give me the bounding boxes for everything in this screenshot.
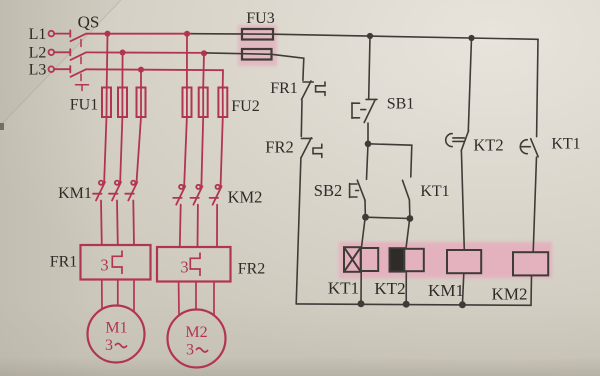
KM1 pole 2: [109, 181, 121, 245]
wire L2 into FU3: [207, 53, 272, 54]
svg-text:KT2: KT2: [473, 136, 503, 155]
junction dot bottom rail 2: [403, 301, 410, 308]
KM2 pole 2: [190, 185, 202, 247]
svg-text:QS: QS: [78, 13, 100, 32]
tilde M1: [115, 344, 127, 348]
fuse FU3 top: [242, 29, 273, 40]
wire FU2 col1 drop: [186, 34, 188, 88]
wire FU1 to KM1 col2: [120, 117, 122, 181]
wire L1 into FU3: [192, 33, 273, 36]
junction dot L2-FU2: [201, 50, 207, 56]
fuse FU2 a: [183, 88, 192, 118]
svg-text:KT1: KT1: [420, 183, 449, 200]
QS linkage dashed: [76, 40, 89, 91]
svg-text:M1: M1: [105, 320, 127, 337]
wire L2 run: [86, 51, 207, 54]
wire FU1 col2 drop: [121, 53, 123, 88]
fuse FU1 c: [137, 88, 146, 118]
junction dot top rail D: [468, 35, 474, 41]
fuse FU1 a: [102, 88, 111, 118]
svg-text:FR2: FR2: [265, 138, 293, 157]
svg-text:KT1: KT1: [551, 136, 580, 153]
KM2 pole 3: [210, 185, 222, 247]
svg-text:3: 3: [186, 342, 194, 359]
coil KM1: [447, 250, 481, 273]
wire FU2 col2 drop: [202, 53, 205, 87]
contact KT1 delayed (NO, on-delay): [520, 139, 538, 253]
svg-text:3: 3: [100, 256, 108, 275]
wire FU1 to KM1 col1: [104, 117, 106, 181]
wire SB2-KT1 bottom join: [366, 217, 410, 218]
svg-text:FU3: FU3: [246, 10, 274, 27]
left edge mark: [0, 123, 4, 130]
terminal L3: [49, 66, 55, 72]
tilde M2: [196, 348, 208, 352]
wire top rail corner to KT1 contact: [537, 39, 538, 136]
junction dot under SB2: [362, 214, 369, 221]
wire FU2 to KM2 col2: [201, 117, 203, 185]
svg-text:KT1: KT1: [328, 279, 359, 298]
wire FU1 col1 drop: [106, 34, 109, 88]
black control circuit: [192, 29, 548, 308]
bottom rail: [296, 304, 531, 305]
wire top rail to KT2 contact: [468, 38, 471, 131]
svg-text:SB1: SB1: [387, 96, 415, 113]
svg-text:FU2: FU2: [231, 98, 259, 115]
wire L3 run: [86, 69, 223, 87]
contact FR1 (NC thermal): [301, 81, 325, 136]
pink highlight behind FU3: [238, 25, 277, 66]
svg-text:FR1: FR1: [270, 80, 298, 97]
junction dot L1-FU2: [184, 31, 190, 37]
thermal relay FR2 heater box: [157, 247, 231, 282]
wires FR2 to motor M2: [179, 282, 214, 316]
svg-text:SB2: SB2: [314, 181, 342, 200]
terminal L1: [49, 31, 55, 37]
fuse FU2 c: [218, 88, 227, 118]
contact KT1 instantaneous (NO): [403, 180, 410, 218]
fuse FU2 b: [199, 88, 208, 118]
thermal relay FR1 heater box: [81, 245, 151, 280]
switch QS pole 2: [54, 49, 86, 60]
junction dot L3-FU1: [138, 67, 144, 73]
motor M2: [168, 310, 226, 368]
wire through FU1 fuses: [106, 88, 108, 118]
fuse FU1 b: [118, 88, 127, 118]
motor M1: [88, 306, 145, 363]
wire to KT1 coil: [362, 217, 366, 247]
fuse FU3 bottom: [242, 49, 272, 60]
wire L2 out to left rail corner: [272, 54, 304, 80]
junction dot bottom rail 3: [459, 301, 466, 308]
wire FU2 to KM2 col1: [184, 117, 187, 185]
svg-text:KM1: KM1: [58, 185, 92, 202]
wire through FU2 fuses: [186, 88, 188, 118]
svg-text:3: 3: [105, 337, 113, 354]
contact KT2 delayed (NO, on-delay): [446, 131, 469, 250]
wire SB1 junction to KT1 branch: [368, 144, 412, 177]
wire FU2 to KM2 col3: [221, 117, 223, 185]
junction dot L2-FU1: [120, 50, 126, 56]
contactor KM1 main contacts: [93, 181, 137, 245]
switch QS pole 1: [54, 30, 86, 41]
switch QS pole 3: [54, 66, 86, 77]
pushbutton SB2 (NO): [350, 144, 368, 217]
coil KT2 (time relay): [390, 248, 424, 271]
svg-text:M2: M2: [185, 324, 207, 341]
svg-text:KT2: KT2: [374, 279, 405, 298]
wire to KT2 coil: [406, 219, 410, 249]
coil bottom leads: [360, 272, 362, 304]
svg-text:L1: L1: [29, 26, 47, 43]
crease diagonal top-left: [0, 0, 121, 126]
svg-text:L3: L3: [29, 62, 47, 79]
wires FR1 to motor M1: [102, 280, 134, 312]
svg-text:KM1: KM1: [428, 281, 464, 300]
junction dot under SB1: [365, 141, 372, 148]
pink highlight band behind coils: [339, 242, 552, 278]
junction dot L1-FU1: [105, 31, 111, 37]
coil KM2: [513, 252, 548, 275]
contactor KM2 main contacts: [173, 185, 221, 247]
junction dot bottom rail 1: [358, 300, 365, 307]
top rail: [273, 34, 538, 39]
KM2 pole 1: [173, 185, 185, 247]
svg-text:FU1: FU1: [70, 97, 98, 114]
svg-text:L2: L2: [29, 45, 47, 62]
wire FU1 col3 drop: [140, 70, 142, 88]
contact FR2 (NC thermal): [296, 138, 322, 304]
wire L1 run: [86, 33, 192, 35]
junction dot top rail B: [367, 33, 373, 39]
KM1 pole 3: [125, 181, 137, 245]
svg-text:FR2: FR2: [238, 261, 266, 278]
corner shade above crease: [0, 0, 121, 126]
svg-text:KM2: KM2: [492, 285, 528, 304]
svg-text:KM2: KM2: [228, 188, 263, 207]
junction dot under KT1 contact: [407, 215, 414, 222]
pushbutton SB1 (NC): [352, 99, 377, 144]
wire top rail to SB1: [369, 36, 370, 99]
KM1 pole 1: [93, 181, 105, 245]
svg-text:3: 3: [180, 258, 188, 277]
wire FU1 to KM1 col3: [137, 117, 141, 181]
coil KT1 (time relay): [344, 247, 378, 272]
terminal L2: [49, 50, 55, 56]
svg-text:FR1: FR1: [50, 254, 78, 271]
